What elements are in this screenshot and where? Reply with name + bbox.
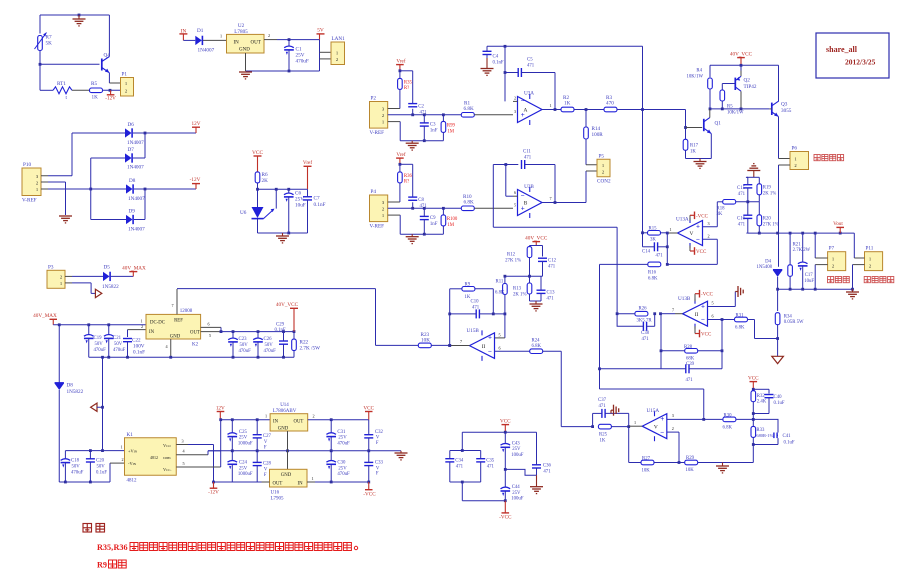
svg-text:12008: 12008: [180, 309, 193, 314]
capacitor C44: [501, 469, 524, 501]
svg-text:0.1uF: 0.1uF: [784, 440, 795, 445]
wire P11 pin1: [854, 233, 864, 258]
port arrow left: [91, 403, 104, 411]
svg-text:2.7K 2W: 2.7K 2W: [793, 248, 811, 253]
capacitor C15: [737, 177, 752, 202]
capacitor C19: [84, 325, 106, 357]
resistor R14: [584, 110, 604, 161]
power 40V_MAX main: [33, 313, 57, 325]
svg-text:C27: C27: [263, 434, 272, 439]
svg-text:F: F: [376, 441, 379, 446]
svg-text:10K: 10K: [686, 468, 695, 473]
power 5V: [317, 28, 325, 40]
wire R23 to U15B out: [431, 344, 451, 347]
svg-text:4812: 4812: [150, 455, 158, 460]
wire Q2 emitter to rail: [740, 65, 742, 70]
svg-text:C11: C11: [523, 150, 531, 155]
svg-text:R4: R4: [696, 69, 702, 74]
svg-text:GND: GND: [281, 473, 292, 478]
svg-text:C4: C4: [493, 55, 499, 60]
svg-text:6: 6: [514, 190, 516, 195]
svg-text:C10: C10: [471, 300, 480, 305]
ground C4: [481, 58, 494, 75]
svg-text:U16: U16: [271, 491, 280, 496]
wire U3A out: [542, 103, 561, 111]
potentiometer R7: [35, 33, 53, 51]
power -VCC U13B: [695, 290, 714, 301]
svg-text:100uF: 100uF: [511, 453, 524, 458]
svg-text:C44: C44: [512, 485, 521, 490]
capacitor C7: [303, 189, 326, 233]
resistor R22: [292, 332, 320, 358]
wire R1 to U3A pin3: [474, 109, 516, 115]
wire D5 to 40V_MAX: [111, 275, 134, 277]
wire Q3 emitter to P6: [779, 117, 791, 159]
svg-text:R20: R20: [763, 217, 772, 222]
svg-text:D5: D5: [104, 264, 111, 270]
resistor R11: [495, 276, 507, 314]
power 40V_VCC K2: [276, 302, 299, 332]
wire K1 pin5 to 12V: [176, 420, 220, 467]
svg-text:P3: P3: [48, 264, 54, 270]
svg-text:1nF: 1nF: [430, 129, 438, 134]
svg-text:471: 471: [543, 470, 551, 475]
connector P6: [790, 146, 809, 170]
svg-text:1N5408: 1N5408: [757, 265, 773, 270]
svg-text:C2: C2: [418, 104, 424, 109]
svg-text:share_all: share_all: [826, 45, 858, 54]
power -12V at P1: [105, 90, 116, 101]
svg-text:470uF: 470uF: [337, 441, 350, 446]
power 12V K1: [216, 405, 225, 419]
wire bank mid jog: [504, 468, 537, 475]
opamp U15B: [467, 328, 495, 361]
svg-text:0.1uF: 0.1uF: [774, 401, 785, 406]
capacitor C40: [765, 395, 785, 414]
wire U15B pin5 stub: [499, 333, 501, 338]
svg-text:VCC: VCC: [363, 405, 374, 411]
svg-text:Vref: Vref: [303, 159, 312, 166]
svg-text:V: V: [376, 436, 380, 441]
power VCC setpoint: [748, 375, 759, 389]
wire top loop Q4 block: [40, 14, 109, 57]
svg-text:R35,: R35,: [97, 543, 113, 552]
resistor R31: [735, 313, 748, 330]
svg-text:7: 7: [672, 308, 674, 313]
svg-text:U6: U6: [240, 210, 247, 216]
svg-text:471: 471: [738, 192, 746, 197]
resistor R29: [685, 456, 698, 473]
wire K1 pin3 to -12V node: [176, 438, 261, 483]
svg-text:REF: REF: [174, 319, 183, 324]
power VCC U6: [252, 150, 263, 172]
svg-text:470uF: 470uF: [71, 471, 84, 476]
resistor R20: [757, 202, 779, 233]
opamp U13B: [678, 296, 708, 329]
svg-text:R31: R31: [736, 313, 745, 318]
svg-text:C32: C32: [375, 430, 384, 435]
wire D6 cathode to 12V: [133, 132, 196, 135]
capacitor C4: [483, 46, 504, 65]
wire K2 OUT pins: [201, 321, 223, 338]
wire P4 pin2 row: [388, 207, 461, 210]
title box share_all: [816, 33, 889, 78]
svg-text:CON2: CON2: [597, 179, 611, 185]
svg-text:471: 471: [527, 64, 535, 69]
wire P3 pin1 to port: [65, 283, 95, 294]
svg-text:2K 1%: 2K 1%: [763, 192, 776, 197]
opamp U13A: [676, 217, 703, 249]
svg-text:1K: 1K: [600, 438, 606, 443]
power -12V bridge: [190, 177, 201, 189]
svg-text:P2: P2: [371, 96, 377, 102]
resistor R4: [686, 69, 712, 90]
connector P4: [370, 189, 388, 222]
regulator U2 L7805: [227, 23, 265, 53]
shunt reference U6: [240, 189, 276, 233]
wire P3 pin2 to D5: [65, 275, 103, 277]
wire K2 bottom rail: [89, 356, 294, 359]
capacitor C28: [253, 451, 272, 482]
svg-text:R32: R32: [757, 394, 766, 399]
svg-text:3: 3: [182, 438, 184, 443]
svg-text:471: 471: [548, 265, 556, 270]
resistor R10: [461, 194, 474, 211]
svg-text:V: V: [376, 466, 380, 471]
svg-text:C31: C31: [337, 430, 346, 435]
svg-text:−: −: [660, 428, 664, 436]
svg-text:680R-1%: 680R-1%: [756, 433, 773, 438]
wire D1 to U2 pin1: [203, 34, 227, 41]
wire mid node outstage: [710, 108, 769, 111]
capacitor C30: [326, 451, 350, 482]
wire loop to current bus: [493, 165, 617, 314]
svg-text:C20: C20: [96, 459, 105, 464]
wire C34 C35 loop: [450, 451, 506, 501]
label ammeter head: [814, 155, 844, 161]
resistor R36: [398, 164, 413, 202]
svg-text:U15A: U15A: [647, 408, 660, 414]
svg-text:U14: U14: [280, 403, 289, 408]
wire R15 left: [641, 231, 647, 234]
power -12V K1: [208, 482, 219, 496]
capacitor C38: [617, 314, 655, 342]
svg-text:3: 3: [514, 109, 516, 114]
net label CON2: [597, 179, 611, 185]
regulator U14 L7806: [270, 403, 308, 432]
svg-text:2: 2: [708, 233, 710, 238]
svg-text:OUT: OUT: [294, 420, 304, 425]
svg-text:470uF: 470uF: [264, 349, 277, 354]
wire Vref node P4: [399, 163, 413, 197]
svg-text:471: 471: [456, 464, 464, 469]
opamp U3A: [518, 91, 543, 126]
wire 40V rail outstage: [710, 64, 779, 102]
svg-text:−: −: [521, 192, 525, 200]
svg-text:40V_MAX: 40V_MAX: [122, 265, 146, 271]
svg-text:-12V: -12V: [208, 490, 219, 496]
svg-text:R26: R26: [639, 307, 648, 312]
svg-text:0.1nF: 0.1nF: [133, 349, 145, 355]
wire bank top rail: [461, 431, 537, 452]
transistor Q4: [102, 53, 110, 73]
dcdc module K1: [125, 432, 177, 484]
power 12V bridge: [192, 121, 201, 133]
ground rotated U13B: [735, 286, 743, 297]
svg-text:V: V: [264, 467, 268, 472]
capacitor C41: [753, 419, 795, 445]
wire R10 to U3B pin5: [474, 203, 516, 209]
wire divider top: [530, 246, 543, 257]
resistor R35: [398, 71, 413, 109]
svg-text:5: 5: [514, 203, 516, 208]
svg-text:25V: 25V: [338, 466, 347, 471]
wire U15A pin3: [667, 413, 723, 421]
svg-text:R29: R29: [686, 456, 695, 461]
capacitor C32: [364, 420, 383, 451]
svg-text:V: V: [654, 424, 658, 430]
svg-text:R13: R13: [513, 287, 522, 292]
wire R4 bottom: [709, 89, 712, 110]
wire U15A pin2: [667, 426, 681, 464]
connector P11: [865, 246, 883, 271]
svg-text:OUT: OUT: [251, 41, 261, 46]
svg-text:1N4007: 1N4007: [198, 48, 215, 54]
wire R32 C40 bottom: [752, 412, 769, 419]
svg-text:6.8K: 6.8K: [464, 106, 474, 112]
wire R3 to Q1 base path: [617, 108, 686, 111]
svg-text:0.1uF: 0.1uF: [96, 471, 107, 476]
wire bus to share line: [600, 368, 662, 370]
net label V-REF P4: [370, 224, 385, 230]
resistor R33: [751, 419, 774, 446]
svg-text:R30: R30: [724, 413, 733, 418]
wire U14 gnd stub: [287, 431, 289, 451]
svg-text:1K: 1K: [690, 149, 696, 154]
svg-text:C43: C43: [512, 442, 521, 447]
wire 40V_VCC out rail: [221, 330, 295, 333]
svg-text:2: 2: [672, 426, 674, 431]
power -VCC U13A: [690, 212, 709, 221]
svg-text:27K 1%: 27K 1%: [763, 223, 779, 228]
svg-text:R28: R28: [684, 345, 693, 350]
svg-text:L7805: L7805: [234, 29, 248, 35]
svg-text:Vout: Vout: [833, 221, 843, 227]
svg-text:C16: C16: [737, 217, 746, 222]
connector P2: [370, 96, 388, 129]
svg-text:10K/1W: 10K/1W: [727, 110, 744, 115]
wire P7 pin2: [815, 265, 827, 290]
capacitor C18: [61, 451, 84, 482]
svg-text:K2: K2: [192, 343, 199, 348]
ground mid rail: [395, 451, 408, 460]
wire P11 pin2: [853, 265, 865, 290]
svg-text:C23: C23: [239, 337, 248, 342]
svg-text:5: 5: [183, 461, 185, 466]
svg-text:2K: 2K: [262, 178, 269, 184]
svg-text:100R: 100R: [592, 132, 604, 138]
capacitor C26: [253, 332, 276, 358]
svg-text:471: 471: [656, 254, 664, 259]
diode D1 1N4007: [195, 28, 214, 54]
net label V-REF P2: [370, 130, 385, 136]
connector LAN1: [331, 36, 345, 65]
svg-text:P5: P5: [599, 153, 605, 159]
svg-text:50V: 50V: [72, 465, 81, 470]
svg-text:2: 2: [122, 457, 124, 462]
resistor R3: [604, 95, 617, 112]
svg-text:5: 5: [209, 333, 211, 338]
svg-text:R27: R27: [642, 456, 651, 461]
wire divider mid node: [504, 275, 543, 278]
power VCC U13A: [690, 246, 707, 256]
resistor R2: [561, 95, 574, 112]
svg-text:OUT: OUT: [273, 482, 283, 487]
wire Vref node P2: [399, 69, 413, 103]
svg-text:C24: C24: [239, 461, 248, 466]
svg-text:40V_VCC: 40V_VCC: [525, 235, 548, 241]
wire R31 to shunt node: [748, 320, 778, 339]
svg-text:1000uF: 1000uF: [238, 441, 253, 446]
capacitor C23: [228, 332, 251, 358]
wire out to R27: [629, 427, 641, 463]
wire P7 pin1: [815, 233, 827, 258]
svg-text:L7905: L7905: [271, 497, 285, 502]
capacitor C22: [123, 338, 145, 358]
ground return rail: [846, 289, 859, 299]
power Vout: [833, 221, 844, 233]
svg-text:R16: R16: [648, 271, 657, 276]
svg-text:0.05R 5W: 0.05R 5W: [784, 320, 804, 325]
resistor R27: [641, 456, 654, 473]
wire R9 right: [475, 289, 493, 314]
svg-text:C7: C7: [314, 196, 320, 202]
svg-text:R?: R?: [404, 86, 409, 91]
capacitor C31: [326, 420, 350, 451]
capacitor C12: [538, 258, 557, 276]
svg-text:Q2: Q2: [744, 78, 751, 84]
svg-text:C36: C36: [543, 464, 552, 469]
dcdc module K2: [146, 309, 201, 348]
capacitor C35: [476, 451, 495, 483]
power 40V_MAX at D5: [122, 265, 146, 276]
svg-text:1N4007: 1N4007: [127, 140, 144, 146]
ground inverted C15: [747, 164, 760, 178]
diode D5 1N5822: [102, 264, 119, 290]
svg-text:C14: C14: [642, 250, 651, 255]
wire P2 pin1 gnd rail: [388, 122, 444, 143]
svg-text:C41: C41: [783, 434, 792, 439]
capacitor C2: [408, 104, 427, 116]
ground divider: [530, 301, 543, 311]
wire U3B out: [542, 171, 597, 204]
svg-text:LAN1: LAN1: [332, 36, 346, 42]
svg-text:1: 1: [670, 227, 672, 232]
power Vref P2: [396, 57, 406, 71]
svg-text:C5: C5: [527, 58, 533, 63]
wire D4 to R34: [776, 277, 779, 311]
svg-text:C30: C30: [337, 461, 346, 466]
wire K1 bottom rail: [59, 457, 124, 483]
wire R24 to U15A: [543, 351, 594, 428]
svg-text:471: 471: [686, 378, 694, 383]
svg-text:TIP42: TIP42: [744, 84, 757, 90]
svg-text:6.8K: 6.8K: [464, 200, 474, 206]
svg-text:GND: GND: [170, 335, 181, 340]
svg-text:VCC: VCC: [252, 150, 263, 156]
svg-text:1: 1: [634, 420, 636, 425]
svg-text:D8: D8: [129, 178, 136, 184]
wire C16 rail stub: [746, 232, 747, 234]
svg-text:471: 471: [524, 156, 532, 161]
wire R5 to P1 pin2: [103, 89, 121, 92]
svg-text:470uF: 470uF: [337, 472, 350, 477]
svg-text:Vref: Vref: [396, 151, 405, 158]
svg-text:IN: IN: [234, 41, 240, 46]
svg-text:P10: P10: [23, 162, 31, 168]
svg-text:D9: D9: [129, 209, 136, 215]
wire D7 cathode: [133, 133, 145, 158]
wire R14 to P5 pin1: [586, 160, 597, 165]
svg-text:1: 1: [220, 34, 222, 39]
svg-text:25V: 25V: [512, 491, 521, 496]
svg-text:1M: 1M: [447, 129, 454, 134]
ground top of Q4 block: [73, 15, 86, 26]
svg-text:50V: 50V: [265, 343, 274, 348]
wire R16 to share bus: [598, 264, 704, 419]
svg-text:com: com: [163, 455, 171, 460]
ground P10: [59, 216, 72, 223]
regulator U16 L7905: [270, 469, 308, 501]
wire R27 to R29: [654, 462, 685, 464]
svg-text:Q3: Q3: [781, 102, 788, 108]
svg-text:-VCC: -VCC: [701, 293, 714, 298]
diode D6 1N4007: [125, 122, 144, 146]
svg-text:GND: GND: [239, 48, 250, 53]
power 40V_VCC output stage: [730, 51, 753, 65]
opamp U15A: [642, 408, 667, 441]
svg-text:10K: 10K: [642, 469, 651, 474]
svg-text:L7806ABV: L7806ABV: [273, 409, 297, 414]
capacitor C16: [737, 202, 752, 233]
svg-text:6: 6: [208, 321, 210, 326]
svg-text:-12V: -12V: [105, 96, 116, 102]
svg-text:471: 471: [487, 464, 495, 469]
resistor R100: [441, 208, 458, 234]
resistor R30: [723, 413, 736, 430]
resistor R18: [717, 200, 736, 218]
svg-text:V-REF: V-REF: [370, 224, 385, 230]
svg-text:D6: D6: [128, 122, 135, 128]
svg-text:IN: IN: [149, 330, 155, 335]
svg-text:6.8K: 6.8K: [495, 291, 505, 296]
svg-text:C40: C40: [774, 395, 783, 400]
svg-text:40V_MAX: 40V_MAX: [33, 313, 57, 319]
svg-text:1: 1: [312, 476, 314, 481]
resistor R9: [450, 282, 475, 300]
svg-text:R9: R9: [465, 282, 471, 287]
ground U2: [239, 72, 252, 79]
wire mid rail R18: [717, 200, 759, 203]
svg-text:II: II: [695, 312, 699, 318]
svg-text:1N5822: 1N5822: [102, 284, 119, 290]
svg-text:1000uF: 1000uF: [238, 472, 253, 477]
capacitor C5: [505, 58, 555, 110]
wire D8 to K1 rail: [58, 390, 60, 482]
thermistor RT1: [53, 81, 72, 101]
wire Q4 emitter to P1: [109, 73, 120, 83]
connector P10: [22, 162, 41, 196]
